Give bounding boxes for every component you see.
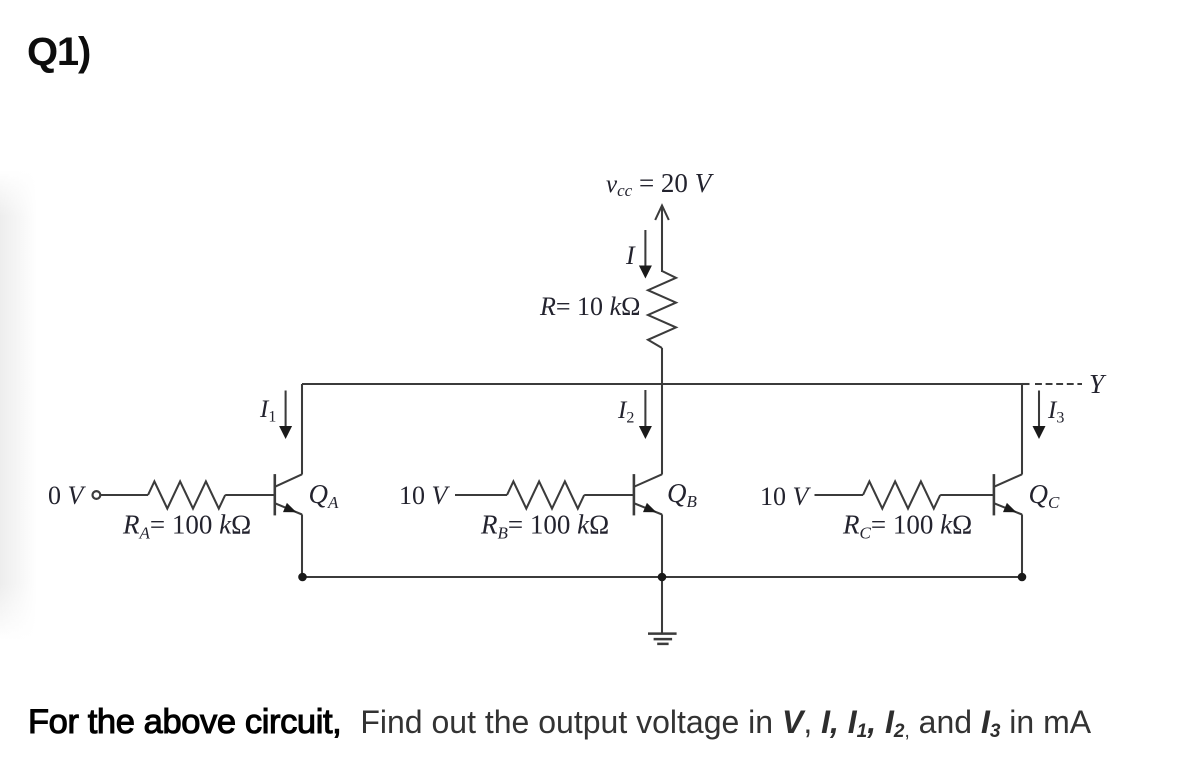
junction dot middle [658, 573, 667, 582]
QB emitter arrowhead [643, 503, 657, 512]
ground bars [648, 634, 677, 644]
svg-text:QC: QC [1029, 479, 1061, 512]
resistor RC zigzag [863, 481, 940, 508]
input terminal wire A [101, 494, 148, 496]
transistor QA base bar [273, 474, 276, 515]
svg-text:Y: Y [1089, 369, 1107, 399]
wire bus overshoot at Y [1022, 383, 1030, 385]
resistor RA zigzag [148, 481, 225, 508]
wire 10V to RB [455, 494, 507, 496]
current I2 arrow line [644, 390, 646, 427]
input terminal circle (0 V) [93, 491, 101, 499]
transistor QB collector and emitter diagonals [634, 474, 662, 514]
power vcc up arrow [655, 206, 669, 273]
resistor RB zigzag [507, 481, 584, 508]
left page-edge shading [0, 170, 40, 640]
QB collector vertical [661, 384, 663, 475]
bottom sentence [28, 702, 1091, 742]
transistor QC collector and emitter diagonals [994, 474, 1022, 514]
transistor QA collector and emitter diagonals [275, 474, 302, 514]
QA emitter arrowhead [283, 503, 297, 512]
current I down arrow (top) [644, 230, 646, 266]
svg-text:I: I [625, 241, 636, 270]
resistor R vertical zigzag [648, 271, 676, 348]
svg-text:I1: I1 [259, 396, 276, 426]
svg-text:vcc = 20 V: vcc = 20 V [606, 168, 715, 200]
arrowhead of I1 [279, 426, 292, 439]
top bus wire [302, 383, 1022, 385]
arrowhead of I3 [1033, 426, 1046, 439]
current I1 arrow line [285, 391, 287, 428]
wire R to bus [661, 348, 663, 384]
svg-text:RA= 100 kΩ: RA= 100 kΩ [122, 510, 251, 543]
ground stem [661, 577, 663, 633]
QA emitter vertical [301, 514, 303, 577]
svg-text:10 V: 10 V [399, 481, 451, 510]
QC emitter arrowhead [1003, 503, 1017, 512]
transistor QC base bar [993, 474, 996, 515]
wire 10V to RC [815, 494, 864, 496]
QC collector vertical [1021, 384, 1023, 475]
arrowhead of I2 [639, 426, 652, 439]
bottom bus wire [302, 576, 1022, 578]
svg-text:0 V: 0 V [48, 481, 87, 510]
title Q1) [27, 30, 90, 75]
QB emitter vertical [661, 514, 663, 577]
junction dot right [1018, 573, 1027, 582]
svg-text:RC= 100 kΩ: RC= 100 kΩ [842, 510, 972, 543]
wire RA to QA base [225, 494, 275, 496]
svg-text:10 V: 10 V [760, 482, 812, 511]
svg-text:I3: I3 [1047, 397, 1064, 427]
svg-text:QA: QA [309, 479, 340, 512]
dashed wire to node Y [1035, 383, 1082, 385]
arrowhead of current I [639, 266, 652, 279]
svg-text:I2: I2 [617, 397, 634, 427]
wire RB to QB base [584, 494, 634, 496]
QA collector vertical [301, 384, 303, 475]
svg-text:RB= 100 kΩ: RB= 100 kΩ [480, 510, 609, 543]
QC emitter vertical [1021, 514, 1023, 577]
junction dot left [298, 573, 307, 582]
transistor QB base bar [633, 474, 636, 515]
svg-text:R= 10 kΩ: R= 10 kΩ [539, 292, 640, 321]
wire RC to QC base [940, 494, 994, 496]
svg-text:QB: QB [667, 478, 698, 511]
current I3 arrow line [1038, 391, 1040, 428]
